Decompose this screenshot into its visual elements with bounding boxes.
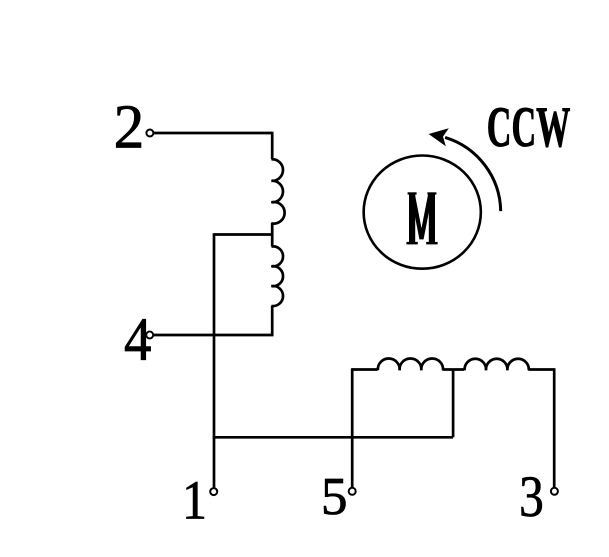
- terminal 1: [210, 488, 217, 495]
- wire: [352, 368, 377, 371]
- node 4 label: [124, 305, 151, 373]
- wire: [271, 132, 274, 160]
- terminal 3: [551, 488, 558, 495]
- wire (center-tap to node between coils): [214, 233, 272, 236]
- wire: [553, 368, 556, 487]
- node 3 label: [519, 464, 544, 529]
- wire: [154, 334, 274, 337]
- svg-text:3: 3: [519, 464, 544, 529]
- CCW label: [487, 96, 571, 159]
- wire: [154, 132, 272, 135]
- wire: [271, 223, 274, 235]
- coil A (phase winding top): [271, 159, 284, 223]
- coil B (phase winding bottom): [271, 246, 283, 306]
- wire (bottom rail): [213, 436, 453, 439]
- wire: [528, 368, 554, 371]
- svg-text:1: 1: [182, 470, 207, 531]
- node 1 label: [182, 470, 207, 531]
- coil D (phase winding right): [465, 359, 529, 371]
- terminal 4: [146, 332, 153, 339]
- node 5 label: [321, 468, 348, 526]
- wire: [271, 306, 274, 335]
- wire (terminal 5 riser): [351, 368, 354, 487]
- svg-text:CCW: CCW: [487, 96, 571, 159]
- motor M1 letter M: [406, 192, 437, 244]
- svg-text:2: 2: [114, 93, 145, 161]
- node 2 label: [114, 93, 145, 161]
- svg-text:5: 5: [321, 468, 348, 526]
- rotation arrow arc: [445, 137, 501, 211]
- wire (junction riser to rail): [452, 370, 455, 438]
- terminal 2: [146, 130, 153, 137]
- wire (tap down to terminal 1): [213, 233, 216, 487]
- wire: [443, 368, 465, 371]
- terminal 5: [349, 488, 356, 495]
- svg-text:4: 4: [124, 305, 151, 373]
- wire: [271, 235, 274, 247]
- rotation arrow head: [429, 128, 449, 146]
- coil C (phase winding left): [378, 358, 443, 370]
- motor M1 circle: [364, 156, 481, 269]
